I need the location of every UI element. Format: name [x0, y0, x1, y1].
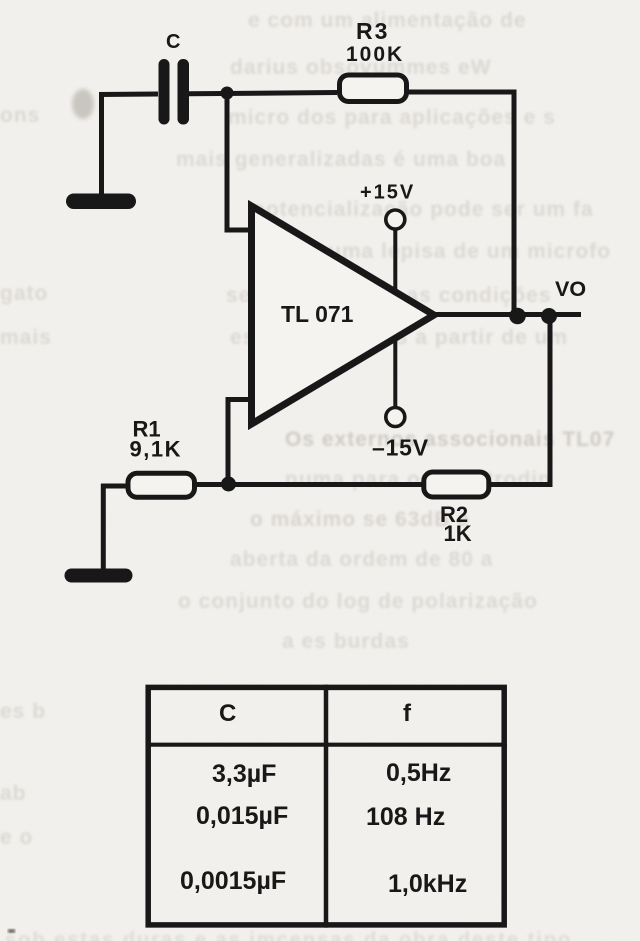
svg-text:Os externos associonais TL07: Os externos associonais TL07	[285, 428, 615, 451]
svg-text:+15V: +15V	[360, 182, 415, 204]
wire ground-bottom vertical	[101, 484, 106, 572]
svg-text:VO: VO	[555, 277, 586, 301]
svg-text:a es burdas: a es burdas	[282, 630, 410, 653]
wire R1 left	[101, 484, 127, 489]
svg-text:–15V: –15V	[372, 435, 429, 461]
value table C/f	[146, 685, 508, 928]
wire +15V supply	[393, 229, 397, 290]
wire R1 to R2	[196, 482, 422, 487]
svg-text:gato: gato	[0, 282, 48, 305]
ground (top left)	[66, 194, 136, 210]
svg-text:1K: 1K	[444, 521, 472, 546]
wire R3 to corner	[408, 90, 517, 95]
wire noninverting input vertical	[226, 400, 252, 485]
svg-text:100K: 100K	[346, 43, 404, 66]
svg-text:es b: es b	[0, 700, 46, 723]
resistor R3	[340, 18, 407, 102]
svg-text:potencialização pode ser um fa: potencialização pode ser um fa	[252, 198, 594, 221]
+15V supply terminal	[360, 182, 415, 230]
capacitor C	[159, 31, 190, 125]
-15V supply terminal	[372, 408, 429, 461]
svg-text:numa para ode eletrodin: numa para ode eletrodin	[285, 468, 552, 491]
wire top-left horizontal	[99, 92, 158, 98]
op-amp U1 TL071	[252, 206, 435, 424]
wire R2 feedback vertical	[548, 314, 553, 487]
svg-text:sob estas duras e as imcensas: sob estas duras e as imcensas da obra de…	[5, 929, 572, 941]
svg-text:e o: e o	[0, 826, 33, 849]
node junction R1/op-amp	[221, 477, 236, 492]
svg-text:o conjunto do log de polarizaç: o conjunto do log de polarização	[178, 590, 538, 613]
svg-text:1,0kHz: 1,0kHz	[388, 870, 467, 898]
smudge (decorative)	[72, 89, 94, 119]
node junction output/R3	[509, 308, 526, 325]
node junction at C/R3	[221, 87, 234, 100]
svg-text:ons: ons	[0, 104, 40, 127]
resistor R2	[424, 472, 489, 546]
svg-text:R3: R3	[356, 18, 389, 44]
ground (bottom left)	[65, 569, 133, 583]
wire capacitor to R3	[189, 93, 337, 94]
svg-text:C: C	[166, 31, 180, 53]
node VO	[555, 277, 586, 301]
svg-text:mais: mais	[0, 326, 52, 349]
resistor R1	[128, 417, 195, 498]
wire feedback vertical	[512, 90, 517, 316]
svg-text:o máximo se 63dB e: o máximo se 63dB e	[250, 508, 470, 531]
svg-text:108 Hz: 108 Hz	[366, 803, 445, 831]
svg-text:micro dos para aplicações e s: micro dos para aplicações e s	[228, 106, 556, 129]
wire -15V supply	[393, 338, 397, 408]
svg-text:f: f	[403, 700, 412, 727]
wire ground-left vertical	[99, 92, 104, 196]
svg-text:0,0015µF: 0,0015µF	[180, 867, 286, 895]
svg-text:TL 071: TL 071	[281, 301, 354, 327]
svg-text:9,1K: 9,1K	[130, 437, 182, 462]
svg-text:ab: ab	[0, 782, 27, 805]
wire inverting input vertical	[225, 93, 252, 230]
node junction output/R2	[541, 308, 557, 324]
svg-text:0,5Hz: 0,5Hz	[386, 759, 451, 787]
svg-text:aberta da ordem de 80 a: aberta da ordem de 80 a	[230, 548, 493, 571]
svg-text:C: C	[219, 700, 236, 727]
svg-text:3,3µF: 3,3µF	[212, 760, 276, 788]
svg-text:0,015µF: 0,015µF	[196, 802, 288, 830]
wire R2 right to corner	[491, 482, 550, 487]
wire output horizontal	[432, 312, 581, 317]
